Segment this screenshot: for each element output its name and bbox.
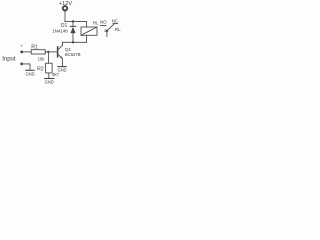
node junction diode top <box>72 20 74 22</box>
ground GND input <box>25 70 34 76</box>
supply +12V terminal <box>59 1 72 11</box>
wire node to R2 <box>48 52 50 63</box>
ground GND below R2 <box>45 79 54 85</box>
relay coil RL <box>81 27 97 35</box>
svg-text:RL: RL <box>115 27 121 32</box>
diode D1 symbol <box>70 26 76 33</box>
wire collector lead <box>61 42 63 45</box>
node base junction <box>47 51 49 53</box>
diode D1 anode lead <box>72 33 74 42</box>
wire supply to top rail <box>64 11 66 22</box>
wire coil top lead <box>86 21 88 27</box>
svg-text:R2: R2 <box>37 67 44 73</box>
input terminal + <box>20 51 23 54</box>
relay contact blade <box>107 24 114 31</box>
svg-text:+: + <box>20 45 23 50</box>
wire input- to ground <box>23 64 30 70</box>
wire R2 to ground <box>48 73 50 78</box>
node junction diode bottom <box>72 41 74 43</box>
svg-text:4k7: 4k7 <box>52 72 60 77</box>
svg-text:R1: R1 <box>31 45 38 51</box>
wire top rail <box>65 20 87 22</box>
wire bottom rail <box>62 41 86 43</box>
wire R1 to base node <box>45 51 57 53</box>
relay contact NC terminal <box>113 23 118 25</box>
svg-text:RL: RL <box>93 20 99 25</box>
svg-text:10k: 10k <box>38 56 46 61</box>
wire emitter lead <box>61 59 63 67</box>
svg-text:BC547B: BC547B <box>65 52 81 57</box>
resistor R1 <box>31 50 45 54</box>
diode D1 cathode lead <box>72 21 74 26</box>
wire common lead <box>106 32 108 37</box>
ground GND emitter <box>58 67 67 73</box>
svg-text:GND: GND <box>25 72 34 77</box>
svg-text:Input: Input <box>2 57 16 63</box>
svg-text:GND: GND <box>45 80 54 85</box>
svg-text:NO: NO <box>100 19 107 24</box>
transistor Q1 <box>58 45 63 58</box>
svg-text:1N4148: 1N4148 <box>52 29 68 34</box>
resistor R2 <box>46 63 53 73</box>
relay contact common pivot <box>106 30 109 33</box>
input terminal - <box>20 63 23 66</box>
wire input+ to R1 <box>23 51 32 53</box>
wire coil bottom lead <box>86 35 88 42</box>
relay contact NO terminal <box>100 25 106 27</box>
svg-text:NC: NC <box>112 19 118 24</box>
